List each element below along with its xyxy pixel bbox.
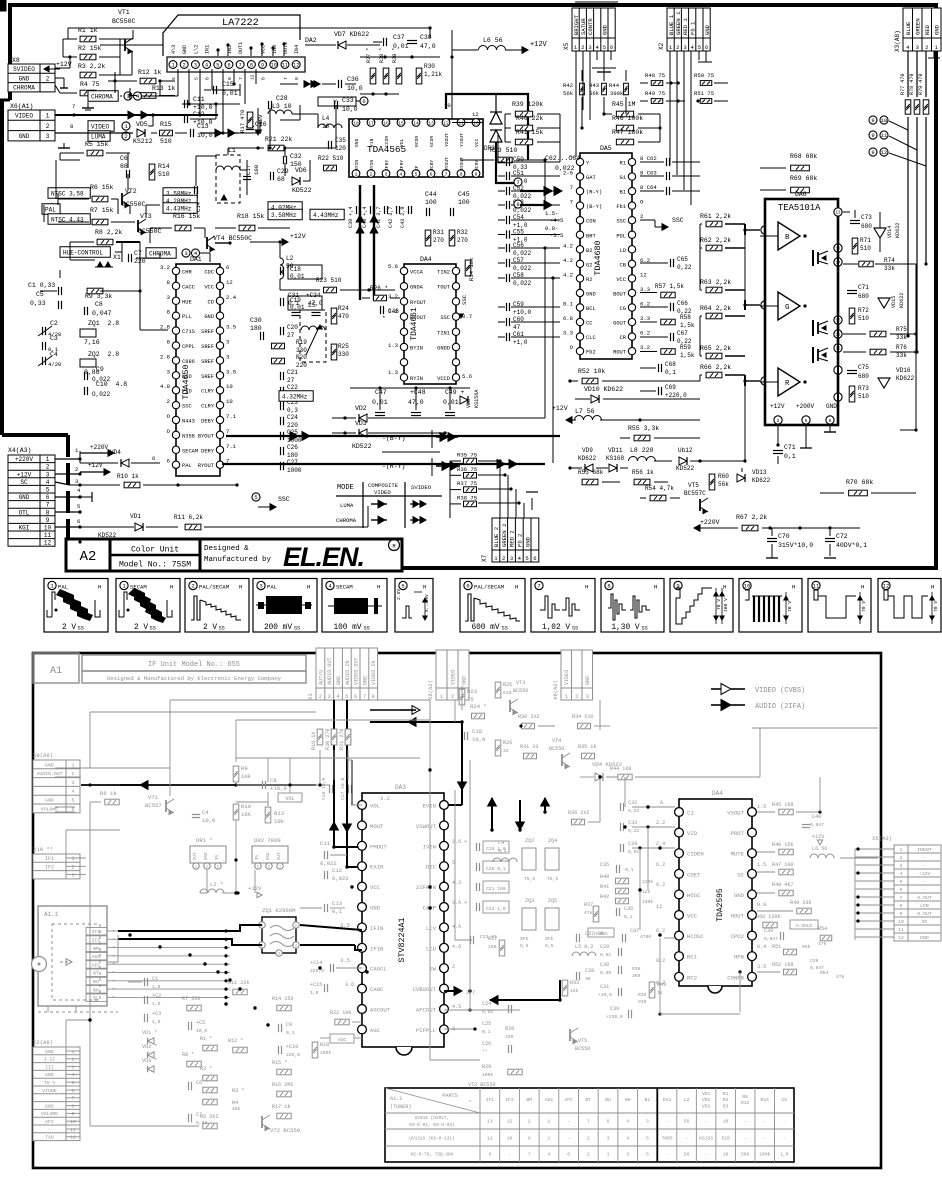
waveform box 13 (878, 579, 941, 633)
wire +220V (55, 458, 80, 460)
wires X5 down (575, 51, 577, 157)
svg-text:GND: GND (19, 75, 30, 82)
svg-text:7: 7 (239, 62, 242, 68)
wire net b16 (659, 938, 661, 1014)
svg-text:ROUT: ROUT (613, 350, 627, 356)
svg-text:G2: G2 (586, 262, 592, 268)
svg-text:5: 5 (193, 77, 199, 80)
svg-text:BC550C: BC550C (112, 18, 136, 25)
svg-text:X8: X8 (12, 57, 20, 64)
svg-text:12: 12 (656, 904, 662, 910)
wire black left arrow mid (490, 996, 498, 1005)
svg-text:BYIN: BYIN (410, 346, 423, 352)
svg-text:R31: R31 (433, 229, 444, 236)
svg-text:GND: GND (45, 1103, 54, 1109)
svg-text:1,0: 1,0 (152, 1001, 161, 1007)
svg-text:10: 10 (322, 123, 330, 130)
border frame right edge (934, 5, 938, 570)
svg-text:2: 2 (206, 865, 208, 869)
junction dots cluster da3 (345, 865, 348, 868)
wire vt3 collector (145, 205, 147, 218)
wire x8 svideo (55, 67, 70, 69)
svg-text:6.2: 6.2 (656, 882, 665, 888)
wire chroma2 to da1 (199, 252, 210, 254)
svg-text:Manufactured by: Manufactured by (204, 556, 271, 564)
svg-text:220: 220 (296, 362, 307, 369)
svg-text:R35 75: R35 75 (457, 452, 477, 459)
svg-text:5: 5 (805, 418, 808, 424)
wire tea input b (761, 226, 769, 234)
svg-text:KD622: KD622 (752, 477, 770, 484)
svg-text:**: ** (482, 1049, 488, 1055)
wire net b23 (89, 768, 91, 785)
svg-text:IFIN: IFIN (370, 925, 383, 932)
svg-text:4: 4 (626, 1119, 629, 1125)
svg-text:+220V: +220V (90, 444, 108, 451)
svg-text:X10 **: X10 ** (33, 846, 53, 853)
wire tuner to zq1 black (14, 925, 262, 935)
resistor R43 56k vertical (602, 83, 607, 95)
svg-text:VT1: VT1 (118, 9, 130, 16)
wire da1 left rail2 (59, 270, 61, 278)
svg-text:G: G (785, 304, 789, 312)
svg-text:2: 2 (46, 75, 50, 82)
svg-text:8: 8 (227, 77, 233, 80)
resistor R20 220 (272, 358, 285, 364)
svg-text:3: 3 (167, 294, 170, 301)
svg-text:4\3: 4\3 (171, 45, 177, 54)
capacitor C35 120 (328, 141, 330, 149)
svg-text:AGCOUT: AGCOUT (370, 1007, 391, 1014)
svg-text:C66: C66 (677, 300, 688, 307)
svg-text:+12V: +12V (919, 871, 931, 877)
capacitor C71 0,1 (773, 450, 783, 452)
svg-text:6: 6 (167, 458, 170, 465)
svg-text:COMPOSITE: COMPOSITE (368, 482, 399, 489)
svg-text:LFB: LFB (920, 903, 929, 909)
svg-text:SS: SS (502, 626, 508, 632)
svg-text:SREF: SREF (201, 374, 214, 380)
svg-text:R13: R13 (274, 810, 284, 817)
capacitor C4 10,0 bottom (192, 814, 200, 816)
svg-text:100k: 100k (482, 1072, 493, 1078)
svg-text:R26 *: R26 * (370, 285, 388, 292)
svg-text:47k: 47k (836, 974, 845, 980)
svg-text:C8: C8 (270, 777, 277, 784)
svg-text:1.5-: 1.5- (545, 210, 558, 217)
svg-text:TIN1: TIN1 (437, 330, 450, 336)
wire audio in black 2 (346, 700, 348, 867)
diode VD15 KD522 (878, 298, 890, 308)
svg-text:10: 10 (473, 120, 479, 126)
waveform box 2 SECAM (116, 579, 180, 633)
svg-text:2.2: 2.2 (656, 820, 665, 826)
svg-text:C1: C1 (687, 810, 694, 817)
svg-text:CF: CF (414, 165, 420, 171)
svg-text:R76: R76 (896, 344, 907, 351)
svg-text:6: 6 (528, 1136, 531, 1142)
svg-text:10k: 10k (232, 1106, 241, 1112)
svg-text:6: 6 (354, 694, 357, 700)
svg-text:5.6: 5.6 (462, 373, 472, 380)
svg-text:LCV: LCV (426, 925, 437, 932)
svg-text:OUT1: OUT1 (238, 42, 244, 54)
svg-text:VD2: VD2 (355, 405, 367, 412)
svg-text:6: 6 (660, 800, 663, 806)
svg-text:3: 3 (167, 368, 170, 375)
wire x8 gnd (55, 77, 64, 79)
resistor R59 1,5k (661, 349, 675, 355)
svg-text:VIDEO: VIDEO (15, 112, 33, 119)
svg-text:*: * (382, 315, 386, 322)
svg-text:R54: R54 (820, 970, 829, 976)
svg-text:R3: R3 (723, 1103, 729, 1109)
wire cvbsout black (444, 990, 452, 992)
svg-text:DA3: DA3 (395, 784, 406, 791)
svg-text:GND: GND (586, 291, 596, 297)
svg-text:KS156A: KS156A (474, 389, 480, 408)
capacitor C7 220 (128, 254, 130, 262)
svg-text:VD1: VD1 (702, 1091, 711, 1097)
inductor L4 10 (318, 124, 342, 128)
svg-text:0,1: 0,1 (665, 369, 676, 376)
svg-text:SSC: SSC (616, 219, 626, 225)
svg-text:47,0: 47,0 (308, 300, 323, 307)
waveform 7 content (465, 594, 474, 621)
svg-text:13: 13 (487, 1119, 493, 1125)
svg-text:-: - (567, 1137, 570, 1142)
svg-text:KS-K-91, KS-H-93): KS-K-91, KS-H-93) (409, 1122, 454, 1128)
wire c50 rail (497, 135, 499, 162)
resistor R30 1,21k vertical (416, 68, 422, 84)
svg-text:TDA4680: TDA4680 (593, 240, 603, 275)
svg-text:6.8: 6.8 (563, 315, 573, 322)
chroma label box (88, 91, 118, 102)
svg-text:11: 11 (487, 1136, 493, 1142)
svg-text:-: - (48, 1128, 51, 1133)
svg-text:C21 100: C21 100 (486, 886, 506, 892)
svg-text:R3 2,2k: R3 2,2k (78, 63, 105, 70)
svg-text:-: - (923, 864, 926, 869)
svg-text:ZQ4: ZQ4 (548, 838, 557, 844)
svg-text:R79 470: R79 470 (918, 74, 924, 95)
svg-text:C47: C47 (375, 389, 387, 396)
svg-text:7: 7 (516, 179, 519, 186)
svg-text:R15 *: R15 * (272, 1060, 287, 1066)
svg-text:7: 7 (587, 1119, 590, 1125)
svg-text:4.32MHz: 4.32MHz (282, 393, 308, 400)
svg-text:IN: IN (256, 854, 260, 860)
waveform box 5 SECAM (322, 579, 387, 633)
svg-text:SSC: SSC (278, 496, 290, 503)
svg-text:KD622: KD622 (578, 455, 596, 462)
svg-text:R74: R74 (884, 257, 895, 264)
svg-text:3.2: 3.2 (380, 795, 390, 802)
ic DA1 TDA4650 body (176, 264, 220, 476)
svg-text:7: 7 (72, 1096, 75, 1102)
svg-text:8: 8 (829, 418, 832, 424)
svg-text:R50 75: R50 75 (694, 72, 714, 79)
svg-text:IDENT: IDENT (917, 847, 932, 853)
svg-text:*: * (112, 962, 115, 969)
ic DA4 notch (708, 986, 722, 993)
svg-text:DA4: DA4 (712, 790, 723, 797)
wire c12 bus (190, 118, 216, 120)
svg-text:VD8: VD8 (466, 399, 472, 408)
svg-text:2.6V: 2.6V (396, 589, 402, 600)
svg-text:X9(A9): X9(A9) (33, 752, 53, 759)
svg-text:VIDEO: VIDEO (450, 670, 456, 685)
wire ntsc net1 (87, 193, 95, 199)
svg-text:L5 0,2: L5 0,2 (575, 944, 593, 950)
waveform box 7 PAL/SECAM (460, 579, 525, 633)
svg-text:R15: R15 (761, 1097, 770, 1103)
capacitor C26 180 (280, 447, 282, 455)
svg-text:47k: 47k (818, 941, 827, 947)
svg-text:R21 270: R21 270 (339, 729, 345, 750)
svg-text:HOUT: HOUT (731, 913, 745, 920)
svg-text:CC: CC (586, 321, 592, 327)
svg-text:+C15: +C15 (310, 982, 322, 988)
waveform 2 content (119, 610, 124, 617)
parts table frame (385, 1088, 794, 1162)
svg-text:C38: C38 (610, 1006, 619, 1012)
svg-text:3: 3 (259, 583, 262, 590)
svg-text:C44: C44 (425, 191, 437, 198)
svg-text:RED: RED (924, 24, 931, 35)
svg-text:VT3: VT3 (516, 680, 525, 686)
svg-text:180: 180 (250, 325, 262, 332)
svg-text:KD522: KD522 (98, 532, 116, 539)
svg-text:R54: R54 (818, 926, 827, 932)
svg-text:AGC: AGC (338, 1037, 347, 1043)
parts table grid (479, 1088, 481, 1162)
svg-text:GOUT: GOUT (613, 321, 627, 327)
resistor R33 15k vertical bottom (562, 980, 568, 996)
title block A1 sub (82, 671, 306, 683)
svg-text:1: 1 (355, 171, 358, 177)
svg-text:-: - (763, 1137, 766, 1142)
svg-text:2: 2 (575, 694, 578, 700)
svg-text:T6,5: T6,5 (547, 876, 558, 882)
svg-text:330: 330 (296, 347, 307, 354)
capacitor C12 10,0 (184, 115, 186, 123)
svg-text:4.5: 4.5 (452, 1004, 461, 1010)
svg-text:H: H (170, 584, 173, 591)
wires tuner bus (118, 930, 230, 932)
svg-text:R63 2,2k: R63 2,2k (700, 279, 731, 286)
svg-text:10,0: 10,0 (196, 1028, 207, 1034)
wire hue wire (115, 251, 122, 253)
svg-text:9: 9 (900, 911, 903, 917)
svg-text:CB: CB (620, 262, 627, 268)
svg-text:8: 8 (516, 201, 519, 208)
svg-text:510: 510 (721, 1136, 730, 1142)
svg-text:680: 680 (858, 293, 869, 300)
svg-text:OUT: OUT (194, 852, 198, 860)
svg-text:5: 5 (46, 487, 50, 494)
svg-text:5: 5 (415, 171, 418, 177)
node 9-12 (869, 148, 877, 156)
wire la7222 drop 4 (211, 69, 213, 90)
wire net b8 (429, 770, 431, 1060)
svg-text:C42 3,7: C42 3,7 (388, 207, 394, 228)
svg-text:GND: GND (45, 797, 54, 803)
svg-text:AGC: AGC (92, 954, 101, 960)
wire net b19 (854, 849, 856, 940)
svg-text:EAIN: EAIN (370, 864, 383, 871)
wire tea fb rail (744, 386, 746, 461)
svg-text:KD522: KD522 (352, 443, 372, 450)
svg-text:R32: R32 (457, 229, 468, 236)
svg-text:7: 7 (226, 428, 229, 435)
svg-text:BH: BH (625, 1097, 631, 1103)
svg-text:2: 2 (587, 1152, 590, 1158)
svg-text:0,22: 0,22 (628, 808, 639, 814)
svg-text:3: 3 (900, 863, 903, 869)
wire chroma arrows (215, 129, 222, 137)
svg-text:CPO2: CPO2 (731, 933, 744, 940)
svg-text:6: 6 (77, 518, 80, 525)
svg-text:ZQ2 2.8: ZQ2 2.8 (88, 351, 119, 358)
svg-text:C35: C35 (335, 137, 346, 144)
svg-text:C36: C36 (624, 906, 633, 912)
svg-text:5: 5 (525, 555, 528, 562)
svg-text:A1.1: A1.1 (390, 1096, 402, 1102)
svg-text:3.2: 3.2 (640, 344, 650, 351)
svg-text:R34 10k: R34 10k (468, 257, 475, 281)
svg-text:56: 56 (684, 1119, 690, 1125)
wire la7222 in switches (217, 50, 219, 56)
svg-text:0,2: 0,2 (498, 848, 507, 854)
svg-text:8: 8 (372, 694, 375, 700)
svg-text:ZQ2: ZQ2 (525, 838, 534, 844)
svg-text:2: 2 (124, 133, 127, 140)
svg-text:R14 150: R14 150 (272, 996, 293, 1002)
svg-text:L6 56: L6 56 (812, 846, 827, 852)
luma label box (88, 131, 110, 142)
svg-text:3: 3 (75, 478, 78, 485)
wire r70 net (819, 425, 821, 493)
resistor R72 510 vertical (849, 308, 855, 324)
svg-text:100k: 100k (320, 1050, 331, 1056)
svg-text:R26: R26 (503, 740, 512, 746)
svg-text:7: 7 (445, 171, 448, 177)
svg-text:VT1: VT1 (148, 794, 159, 801)
svg-text:0,047: 0,047 (764, 936, 778, 942)
svg-text:SS: SS (219, 626, 225, 632)
capacitor C72 400V (825, 538, 835, 540)
svg-text:BC550: BC550 (549, 746, 564, 752)
svg-text:9: 9 (871, 132, 874, 139)
wire video in (55, 114, 218, 116)
wire vert 545 (544, 160, 546, 205)
svg-text:3.58MHz: 3.58MHz (271, 212, 297, 219)
capacitor C37 0,01 (383, 38, 385, 46)
svg-text:7: 7 (72, 103, 75, 110)
svg-text:C31: C31 (288, 292, 299, 299)
svg-text:MOUT: MOUT (370, 823, 384, 830)
wire ntsc net rail2 (43, 205, 45, 222)
wire x7 lines (499, 461, 501, 518)
svg-text:7: 7 (570, 199, 573, 206)
svg-text:70 V: 70 V (787, 601, 793, 612)
svg-text:R30: R30 (424, 63, 435, 70)
svg-text:DA6: DA6 (795, 191, 807, 198)
wire left step thick (0, 99, 10, 102)
svg-text:BH: BH (93, 987, 99, 993)
waveform 13 content (884, 590, 888, 600)
wire gray rail 470 (469, 760, 471, 1010)
svg-text:-: - (666, 1153, 669, 1158)
svg-text:2: 2 (167, 398, 170, 405)
svg-text:8: 8 (488, 1152, 491, 1158)
svg-text:2: 2 (502, 555, 505, 562)
svg-text:SECAM: SECAM (130, 584, 147, 591)
svg-text:C18: C18 (472, 728, 482, 735)
svg-text:2: 2 (75, 466, 78, 473)
svg-text:R38: R38 (632, 966, 641, 972)
svg-text:CLRY: CLRY (201, 404, 215, 410)
svg-text:GND: GND (45, 762, 54, 768)
svg-text:2: 2 (452, 964, 455, 970)
svg-text:R45 1k8: R45 1k8 (772, 802, 793, 808)
svg-text:IFIN: IFIN (370, 945, 383, 952)
svg-text:CHROMA: CHROMA (336, 517, 357, 524)
svg-text:R28 *: R28 * (379, 48, 385, 63)
svg-text:R65 2,2k: R65 2,2k (700, 345, 731, 352)
capacitor C21 27 (280, 372, 282, 380)
svg-text:VCC: VCC (370, 884, 381, 891)
svg-text:H: H (98, 584, 101, 591)
wire agc rail (354, 1037, 362, 1039)
svg-text:0,1: 0,1 (625, 867, 634, 873)
capacitor C11 10,0 (184, 100, 186, 108)
svg-text:11: 11 (813, 583, 820, 590)
svg-text:2: 2 (46, 464, 50, 471)
svg-text:1: 1 (171, 62, 174, 68)
svg-text:R41: R41 (600, 884, 609, 890)
svg-text:1.5: 1.5 (757, 804, 766, 810)
svg-text:TAU: TAU (45, 1135, 54, 1141)
svg-text:R12: R12 (741, 1100, 750, 1106)
svg-text:R16 15k: R16 15k (173, 213, 200, 220)
svg-text:5: 5 (345, 694, 348, 700)
tuner bottom dashed (38, 1011, 118, 1013)
ic LA7222 pins 1-12 (169, 61, 177, 69)
svg-text:3: 3 (217, 865, 219, 869)
wire r35r38 rail (449, 461, 451, 518)
wire chroma rail (238, 132, 260, 134)
svg-text:R12 *: R12 * (228, 1038, 243, 1044)
svg-text:1: 1 (71, 856, 74, 862)
svg-text:GND: GND (734, 892, 745, 899)
svg-text:6: 6 (152, 455, 155, 462)
svg-text:3: 3 (257, 865, 259, 869)
svg-text:56k: 56k (741, 1152, 750, 1158)
svg-text:-: - (744, 1137, 747, 1142)
svg-text:GND: GND (602, 24, 609, 35)
svg-text:C6 *: C6 * (196, 1080, 208, 1086)
wire tea input g (761, 301, 769, 309)
ground X8 (87, 102, 89, 108)
svg-text:*: * (112, 929, 115, 936)
svg-text:C21: C21 (287, 369, 298, 376)
svg-text:Color Unit: Color Unit (131, 546, 179, 555)
svg-text:0,22: 0,22 (628, 828, 639, 834)
wire x7 top rails (494, 440, 496, 470)
svg-text:GND: GND (354, 138, 360, 147)
